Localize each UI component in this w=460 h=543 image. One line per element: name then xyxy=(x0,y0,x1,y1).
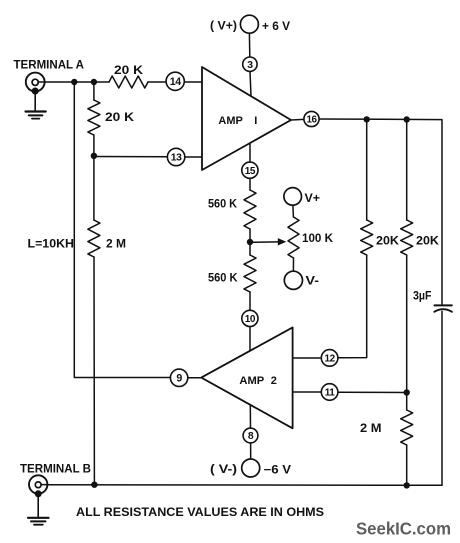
svg-text:TERMINAL B: TERMINAL B xyxy=(20,461,91,475)
svg-text:12: 12 xyxy=(324,354,335,365)
svg-text:−6 V: −6 V xyxy=(264,465,292,477)
svg-text:3: 3 xyxy=(247,60,253,71)
svg-text:2 M: 2 M xyxy=(106,239,126,251)
svg-text:14: 14 xyxy=(170,76,181,88)
svg-text:ALL RESISTANCE VALUES ARE IN O: ALL RESISTANCE VALUES ARE IN OHMS xyxy=(76,505,324,519)
svg-text:2: 2 xyxy=(271,375,277,387)
svg-text:20 K: 20 K xyxy=(105,112,135,124)
svg-text:15: 15 xyxy=(245,166,256,177)
svg-text:20K: 20K xyxy=(416,236,440,248)
svg-text:AMP: AMP xyxy=(239,375,264,387)
svg-text:TERMINAL A: TERMINAL A xyxy=(14,58,85,72)
svg-text:L=10KH: L=10KH xyxy=(28,239,75,251)
svg-text:V-: V- xyxy=(306,276,320,288)
svg-text:( V+): ( V+) xyxy=(210,21,237,33)
svg-text:20K: 20K xyxy=(376,236,400,248)
svg-text:16: 16 xyxy=(307,115,318,126)
svg-text:SeekIC.com: SeekIC.com xyxy=(356,519,451,539)
svg-text:8: 8 xyxy=(248,431,254,442)
svg-text:13: 13 xyxy=(171,153,182,164)
svg-text:100 K: 100 K xyxy=(302,233,334,245)
svg-text:AMP: AMP xyxy=(218,115,242,127)
svg-text:3µF: 3µF xyxy=(413,290,432,302)
svg-text:20 K: 20 K xyxy=(114,65,144,77)
svg-text:( V-): ( V-) xyxy=(210,464,237,476)
svg-text:10: 10 xyxy=(245,314,256,325)
svg-text:+ 6 V: + 6 V xyxy=(262,21,290,33)
svg-text:2 M: 2 M xyxy=(360,423,382,435)
svg-text:V+: V+ xyxy=(305,193,321,205)
svg-text:560 K: 560 K xyxy=(208,199,238,211)
svg-text:9: 9 xyxy=(176,373,182,385)
svg-text:11: 11 xyxy=(325,388,336,399)
svg-text:I: I xyxy=(254,115,257,127)
svg-text:560 K: 560 K xyxy=(208,273,238,285)
